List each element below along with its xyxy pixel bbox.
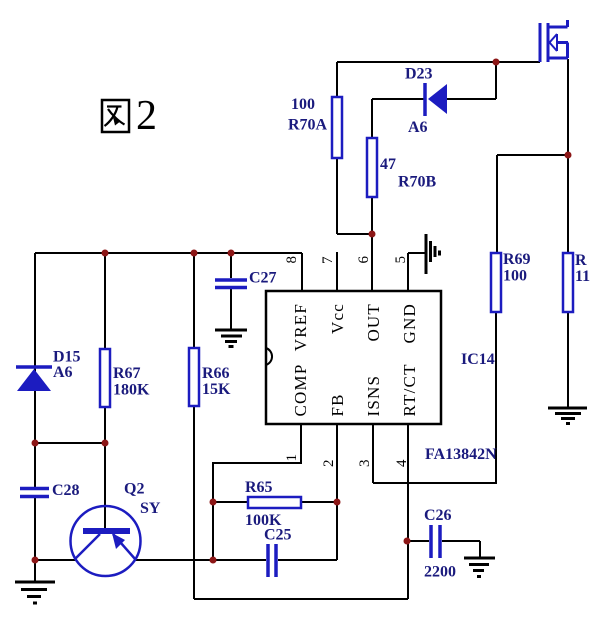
svg-text:FB: FB [328,393,347,416]
svg-text:100: 100 [503,268,527,285]
svg-text:4: 4 [394,459,410,467]
svg-text:R66: R66 [202,365,230,382]
svg-text:GND: GND [400,303,419,343]
svg-text:D23: D23 [405,66,433,83]
svg-text:C27: C27 [249,270,277,287]
svg-text:100: 100 [291,96,315,113]
svg-text:2: 2 [136,93,157,139]
svg-text:6: 6 [356,256,372,264]
svg-text:3: 3 [357,460,373,468]
svg-text:C25: C25 [264,527,292,544]
svg-text:5: 5 [393,256,409,264]
svg-text:Q2: Q2 [124,481,144,498]
svg-text:180K: 180K [113,382,150,399]
svg-text:VREF: VREF [291,303,310,351]
svg-text:7: 7 [320,256,336,264]
svg-text:IC14: IC14 [461,351,495,368]
svg-text:D15: D15 [53,349,81,366]
svg-text:C26: C26 [424,507,452,524]
svg-text:2200: 2200 [424,564,456,581]
svg-text:2: 2 [321,460,337,468]
svg-text:R67: R67 [113,365,141,382]
svg-text:A6: A6 [53,364,73,381]
svg-text:C28: C28 [52,482,80,499]
svg-text:R69: R69 [503,251,531,268]
svg-text:R70B: R70B [398,174,437,191]
svg-text:R65: R65 [245,479,273,496]
svg-text:ISNS: ISNS [364,375,383,417]
svg-text:8: 8 [284,256,300,264]
svg-text:15K: 15K [202,381,231,398]
svg-text:1: 1 [284,454,300,462]
svg-text:OUT: OUT [364,303,383,342]
svg-text:47: 47 [380,156,396,173]
svg-text:RT/CT: RT/CT [400,363,419,416]
svg-text:FA13842N: FA13842N [425,446,497,463]
svg-text:Vcc: Vcc [328,303,347,334]
svg-text:R: R [575,252,587,269]
svg-text:COMP: COMP [291,364,310,417]
svg-text:SY: SY [140,500,161,517]
svg-text:11: 11 [575,268,590,285]
svg-text:R70A: R70A [288,117,328,134]
svg-text:A6: A6 [408,119,428,136]
